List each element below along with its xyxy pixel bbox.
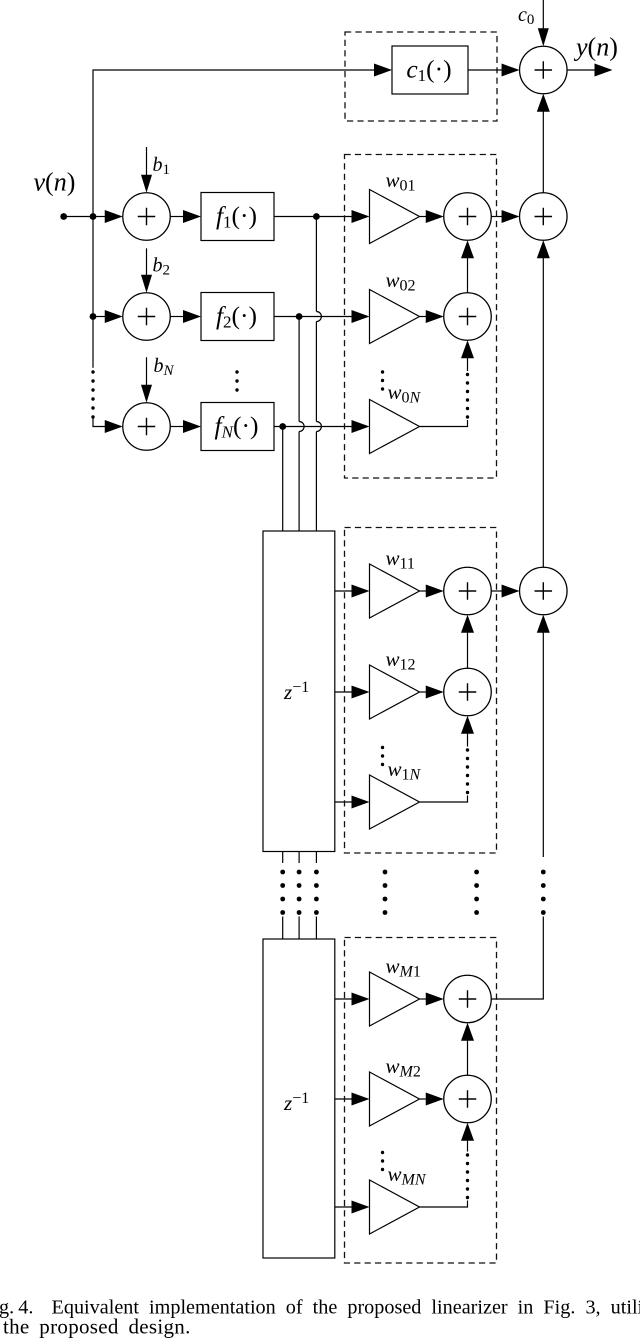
svg-text:f2(·): f2(·) bbox=[216, 301, 257, 332]
label w0N bbox=[388, 380, 422, 407]
label v(n) bbox=[34, 168, 76, 197]
block fN bbox=[201, 403, 274, 451]
dashed box around c1 bbox=[345, 32, 497, 121]
dashed box group w1 bbox=[345, 528, 497, 854]
wire B0 up into output adder Y bbox=[537, 94, 550, 193]
label w1N bbox=[388, 757, 422, 784]
adder SM1 bbox=[444, 975, 492, 1023]
svg-text:b2: b2 bbox=[153, 255, 171, 279]
wire wM2 to adder bbox=[420, 1093, 444, 1106]
ellipsis before w1N label bbox=[381, 746, 384, 766]
adder S01 bbox=[444, 193, 492, 241]
delay block z-1 first bbox=[263, 531, 335, 852]
amplifier w02 bbox=[370, 290, 420, 344]
wire input stub bbox=[64, 216, 93, 218]
wire w0N elbow with dotted section up into S02 bbox=[420, 340, 475, 426]
wire z1 tap to w1N bbox=[335, 796, 370, 809]
wire main column from group M up into B1 bbox=[537, 615, 550, 857]
svg-text:wMN: wMN bbox=[388, 1162, 427, 1189]
wire w02 to adder bbox=[420, 310, 444, 323]
svg-text:w11: w11 bbox=[386, 546, 415, 573]
dashed box group wM bbox=[345, 938, 497, 1264]
wire z2 tap to wM1 bbox=[335, 993, 370, 1006]
label wM2 bbox=[386, 1054, 421, 1081]
wire fN drop line bbox=[282, 427, 284, 532]
svg-text:w02: w02 bbox=[386, 268, 416, 295]
adder A2 input summer row 2 bbox=[123, 293, 171, 341]
adder S11 bbox=[444, 567, 492, 615]
wire z2 tap to wMN bbox=[335, 1201, 370, 1214]
wire w01 to adder bbox=[420, 210, 444, 223]
label wMN bbox=[388, 1162, 427, 1189]
adder AN input summer row N bbox=[123, 403, 171, 451]
label wM1 bbox=[386, 954, 421, 981]
wire f2 drop line with hop bbox=[299, 317, 304, 532]
label w12 bbox=[386, 647, 416, 674]
label bN bbox=[154, 355, 175, 379]
wire y(n) output bbox=[567, 64, 612, 77]
adder B0 column summer bbox=[520, 193, 568, 241]
svg-text:f1(·): f1(·) bbox=[216, 201, 257, 232]
wire into adder A1 bbox=[93, 210, 123, 223]
adder Y output summer bbox=[520, 46, 568, 94]
svg-text:w0N: w0N bbox=[388, 380, 422, 407]
amplifier w11 bbox=[370, 564, 420, 618]
svg-text:b1: b1 bbox=[153, 154, 171, 178]
svg-text:y(n): y(n) bbox=[573, 33, 618, 62]
wire branch dotted section bbox=[91, 370, 94, 418]
ellipsis before w0N label bbox=[381, 370, 384, 390]
label w01 bbox=[386, 168, 416, 195]
wire branch vertical bbox=[92, 317, 94, 368]
svg-text:w01: w01 bbox=[386, 168, 416, 195]
label w11 bbox=[386, 546, 415, 573]
wire adder A2 to f2 bbox=[170, 310, 201, 323]
wire branch to c1 path bbox=[93, 64, 392, 317]
wire z1 tap to w11 bbox=[335, 585, 370, 598]
wire b1 input bbox=[141, 147, 152, 193]
wire f2 output to w02 bbox=[274, 310, 370, 323]
node branch junction row2 bbox=[90, 313, 97, 320]
wire bN input bbox=[141, 357, 152, 403]
wire adder S12 up into S11 bbox=[461, 615, 474, 669]
wire adder AN to fN bbox=[170, 420, 201, 433]
label c0 bbox=[518, 4, 534, 28]
caption line 2 bbox=[3, 1315, 191, 1339]
adder B1 column summer bbox=[520, 567, 568, 615]
wire wM1 to adder bbox=[420, 993, 444, 1006]
amplifier wM1 bbox=[370, 972, 420, 1026]
wire f1 output to w01 bbox=[274, 210, 370, 223]
svg-text:v(n): v(n) bbox=[34, 168, 76, 197]
wire adder S11 to column adder B1 bbox=[491, 585, 519, 598]
wire adder A1 to f1 bbox=[170, 210, 201, 223]
ellipsis between f2 and fN bbox=[235, 370, 238, 391]
ellipsis before wMN label bbox=[381, 1151, 384, 1171]
wire w11 to adder bbox=[420, 585, 444, 598]
svg-text:bN: bN bbox=[154, 355, 175, 379]
adder S12 bbox=[444, 668, 492, 716]
wire adder S01 to column adder B0 bbox=[491, 210, 519, 223]
amplifier wMN bbox=[370, 1180, 420, 1234]
wire branch elbow into adder A3 bbox=[93, 419, 123, 434]
amplifier wM2 bbox=[370, 1072, 420, 1126]
wire wMN elbow with dotted section up into SM2 bbox=[420, 1123, 475, 1207]
adder A1 input summer row 1 bbox=[123, 193, 171, 241]
wire b2 input bbox=[141, 248, 152, 292]
block c1 bbox=[392, 46, 468, 94]
wire branch into adder A2 bbox=[93, 310, 123, 323]
wire w12 to adder bbox=[420, 686, 444, 699]
svg-text:c1(·): c1(·) bbox=[406, 55, 451, 86]
wire adder SM1 output elbow up the column bbox=[491, 917, 543, 1000]
amplifier w01 bbox=[370, 190, 420, 244]
wire z1 bottom outputs bbox=[283, 852, 317, 864]
block f2 bbox=[201, 293, 274, 341]
adder S02 bbox=[444, 293, 492, 341]
wire adder S02 up into S01 bbox=[461, 240, 474, 293]
wire c1 to output adder bbox=[468, 64, 520, 77]
node branch junction row1 bbox=[90, 213, 97, 220]
wire z1 tap to w12 bbox=[335, 686, 370, 699]
svg-text:w1N: w1N bbox=[388, 757, 422, 784]
wire resume into z2 inputs bbox=[283, 917, 317, 940]
amplifier w1N bbox=[370, 775, 420, 829]
node f2 output junction bbox=[296, 313, 303, 320]
wire z2 tap to wM2 bbox=[335, 1093, 370, 1106]
node f1 output junction bbox=[313, 213, 320, 220]
wire adder SM2 up into SM1 bbox=[461, 1023, 474, 1076]
wire c0 input bbox=[538, 0, 549, 46]
label y(n) bbox=[573, 33, 618, 62]
node fN output junction bbox=[279, 423, 286, 430]
node input terminal dot bbox=[60, 213, 67, 220]
svg-text:w12: w12 bbox=[386, 647, 416, 674]
svg-text:c0: c0 bbox=[518, 4, 534, 28]
delay block z-1 last bbox=[263, 939, 335, 1258]
caption line 1 bbox=[0, 1297, 640, 1319]
break ellipsis columns bbox=[280, 870, 545, 915]
wire B1 up into B0 bbox=[537, 240, 550, 567]
dashed box group w0 bbox=[345, 155, 497, 479]
amplifier w12 bbox=[370, 665, 420, 719]
wire w1N elbow with dotted section up into S12 bbox=[420, 716, 475, 802]
svg-text:fN(·): fN(·) bbox=[215, 411, 259, 442]
adder SM2 bbox=[444, 1075, 492, 1123]
wire f1 drop line with hops bbox=[316, 217, 321, 532]
wire fN output to w0N bbox=[274, 420, 370, 433]
svg-text:wM1: wM1 bbox=[386, 954, 421, 981]
label w02 bbox=[386, 268, 416, 295]
svg-text:wM2: wM2 bbox=[386, 1054, 421, 1081]
label b2 bbox=[153, 255, 171, 279]
block f1 bbox=[201, 193, 274, 241]
label b1 bbox=[153, 154, 171, 178]
svg-text:the proposed design.: the proposed design. bbox=[3, 1315, 191, 1339]
amplifier w0N bbox=[370, 400, 420, 454]
